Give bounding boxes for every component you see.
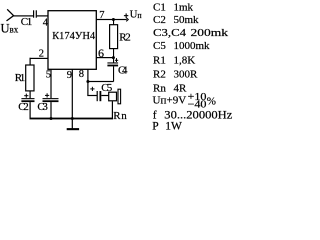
svg-text:R1 1,8K: R1 1,8K xyxy=(153,55,195,67)
svg-text:P 1W: P 1W xyxy=(152,120,182,132)
capacitor C5 xyxy=(90,87,108,101)
svg-text:C1 1mk: C1 1mk xyxy=(153,2,194,14)
wire C4 to pin 8 node xyxy=(88,81,114,82)
capacitor C3 xyxy=(43,93,59,118)
svg-text:R1: R1 xyxy=(15,72,25,84)
svg-text:9: 9 xyxy=(67,70,72,81)
wire pin 9 to rail xyxy=(72,69,73,118)
wire pin 2 to R1 xyxy=(30,58,49,66)
speaker load Rn xyxy=(109,89,121,104)
svg-text:C1: C1 xyxy=(21,16,33,28)
capacitor C1 xyxy=(33,10,37,17)
svg-text:C2: C2 xyxy=(18,101,29,113)
junction node pin7/R2 xyxy=(112,18,115,21)
svg-text:R2: R2 xyxy=(119,32,131,44)
svg-text:%: % xyxy=(207,96,216,108)
capacitor C2 xyxy=(21,94,34,119)
value label Un +9V +10 -40 % xyxy=(153,92,216,110)
wire pin 6 to R2/C4 node xyxy=(96,57,113,58)
IC U1 К174УН4 box xyxy=(48,11,96,70)
input terminal arrow Uвх xyxy=(7,9,14,21)
svg-text:Rn: Rn xyxy=(113,110,127,122)
svg-text:C3,C4 200mk: C3,C4 200mk xyxy=(153,27,229,39)
junction node pin6/R2/C4 xyxy=(112,56,115,59)
junction node pin9/rail xyxy=(71,117,74,120)
label +Uп xyxy=(124,10,142,21)
svg-text:C3: C3 xyxy=(37,101,48,113)
svg-text:К174УН4: К174УН4 xyxy=(52,30,95,42)
svg-text:Uп+9V: Uп+9V xyxy=(153,95,187,107)
wire pin 7 to +Un terminal xyxy=(96,18,128,22)
svg-text:R2 300R: R2 300R xyxy=(153,69,198,81)
ground rail xyxy=(30,118,114,120)
junction node C3/rail xyxy=(50,117,53,120)
wire speaker to ground rail xyxy=(112,101,113,118)
wire pin 5 to C3 xyxy=(50,69,51,98)
svg-text:5: 5 xyxy=(46,69,51,80)
junction node pin8/C4 xyxy=(86,80,89,83)
ground xyxy=(67,119,79,130)
resistor R2 xyxy=(110,20,118,58)
capacitor C4 xyxy=(107,58,118,82)
svg-text:C5 1000mk: C5 1000mk xyxy=(153,40,210,52)
wire C1 to pin 4 xyxy=(37,15,48,16)
wire input to C1 xyxy=(14,15,34,16)
svg-text:8: 8 xyxy=(79,69,84,80)
svg-text:C4: C4 xyxy=(118,64,128,76)
svg-text:Uп: Uп xyxy=(130,10,143,21)
resistor R1 xyxy=(26,65,34,98)
svg-text:C2 50mk: C2 50mk xyxy=(153,14,199,26)
svg-text:Uвх: Uвх xyxy=(1,21,19,35)
wire pin 8 down and to C5 xyxy=(87,69,97,96)
svg-text:Rn 4R: Rn 4R xyxy=(153,83,187,95)
